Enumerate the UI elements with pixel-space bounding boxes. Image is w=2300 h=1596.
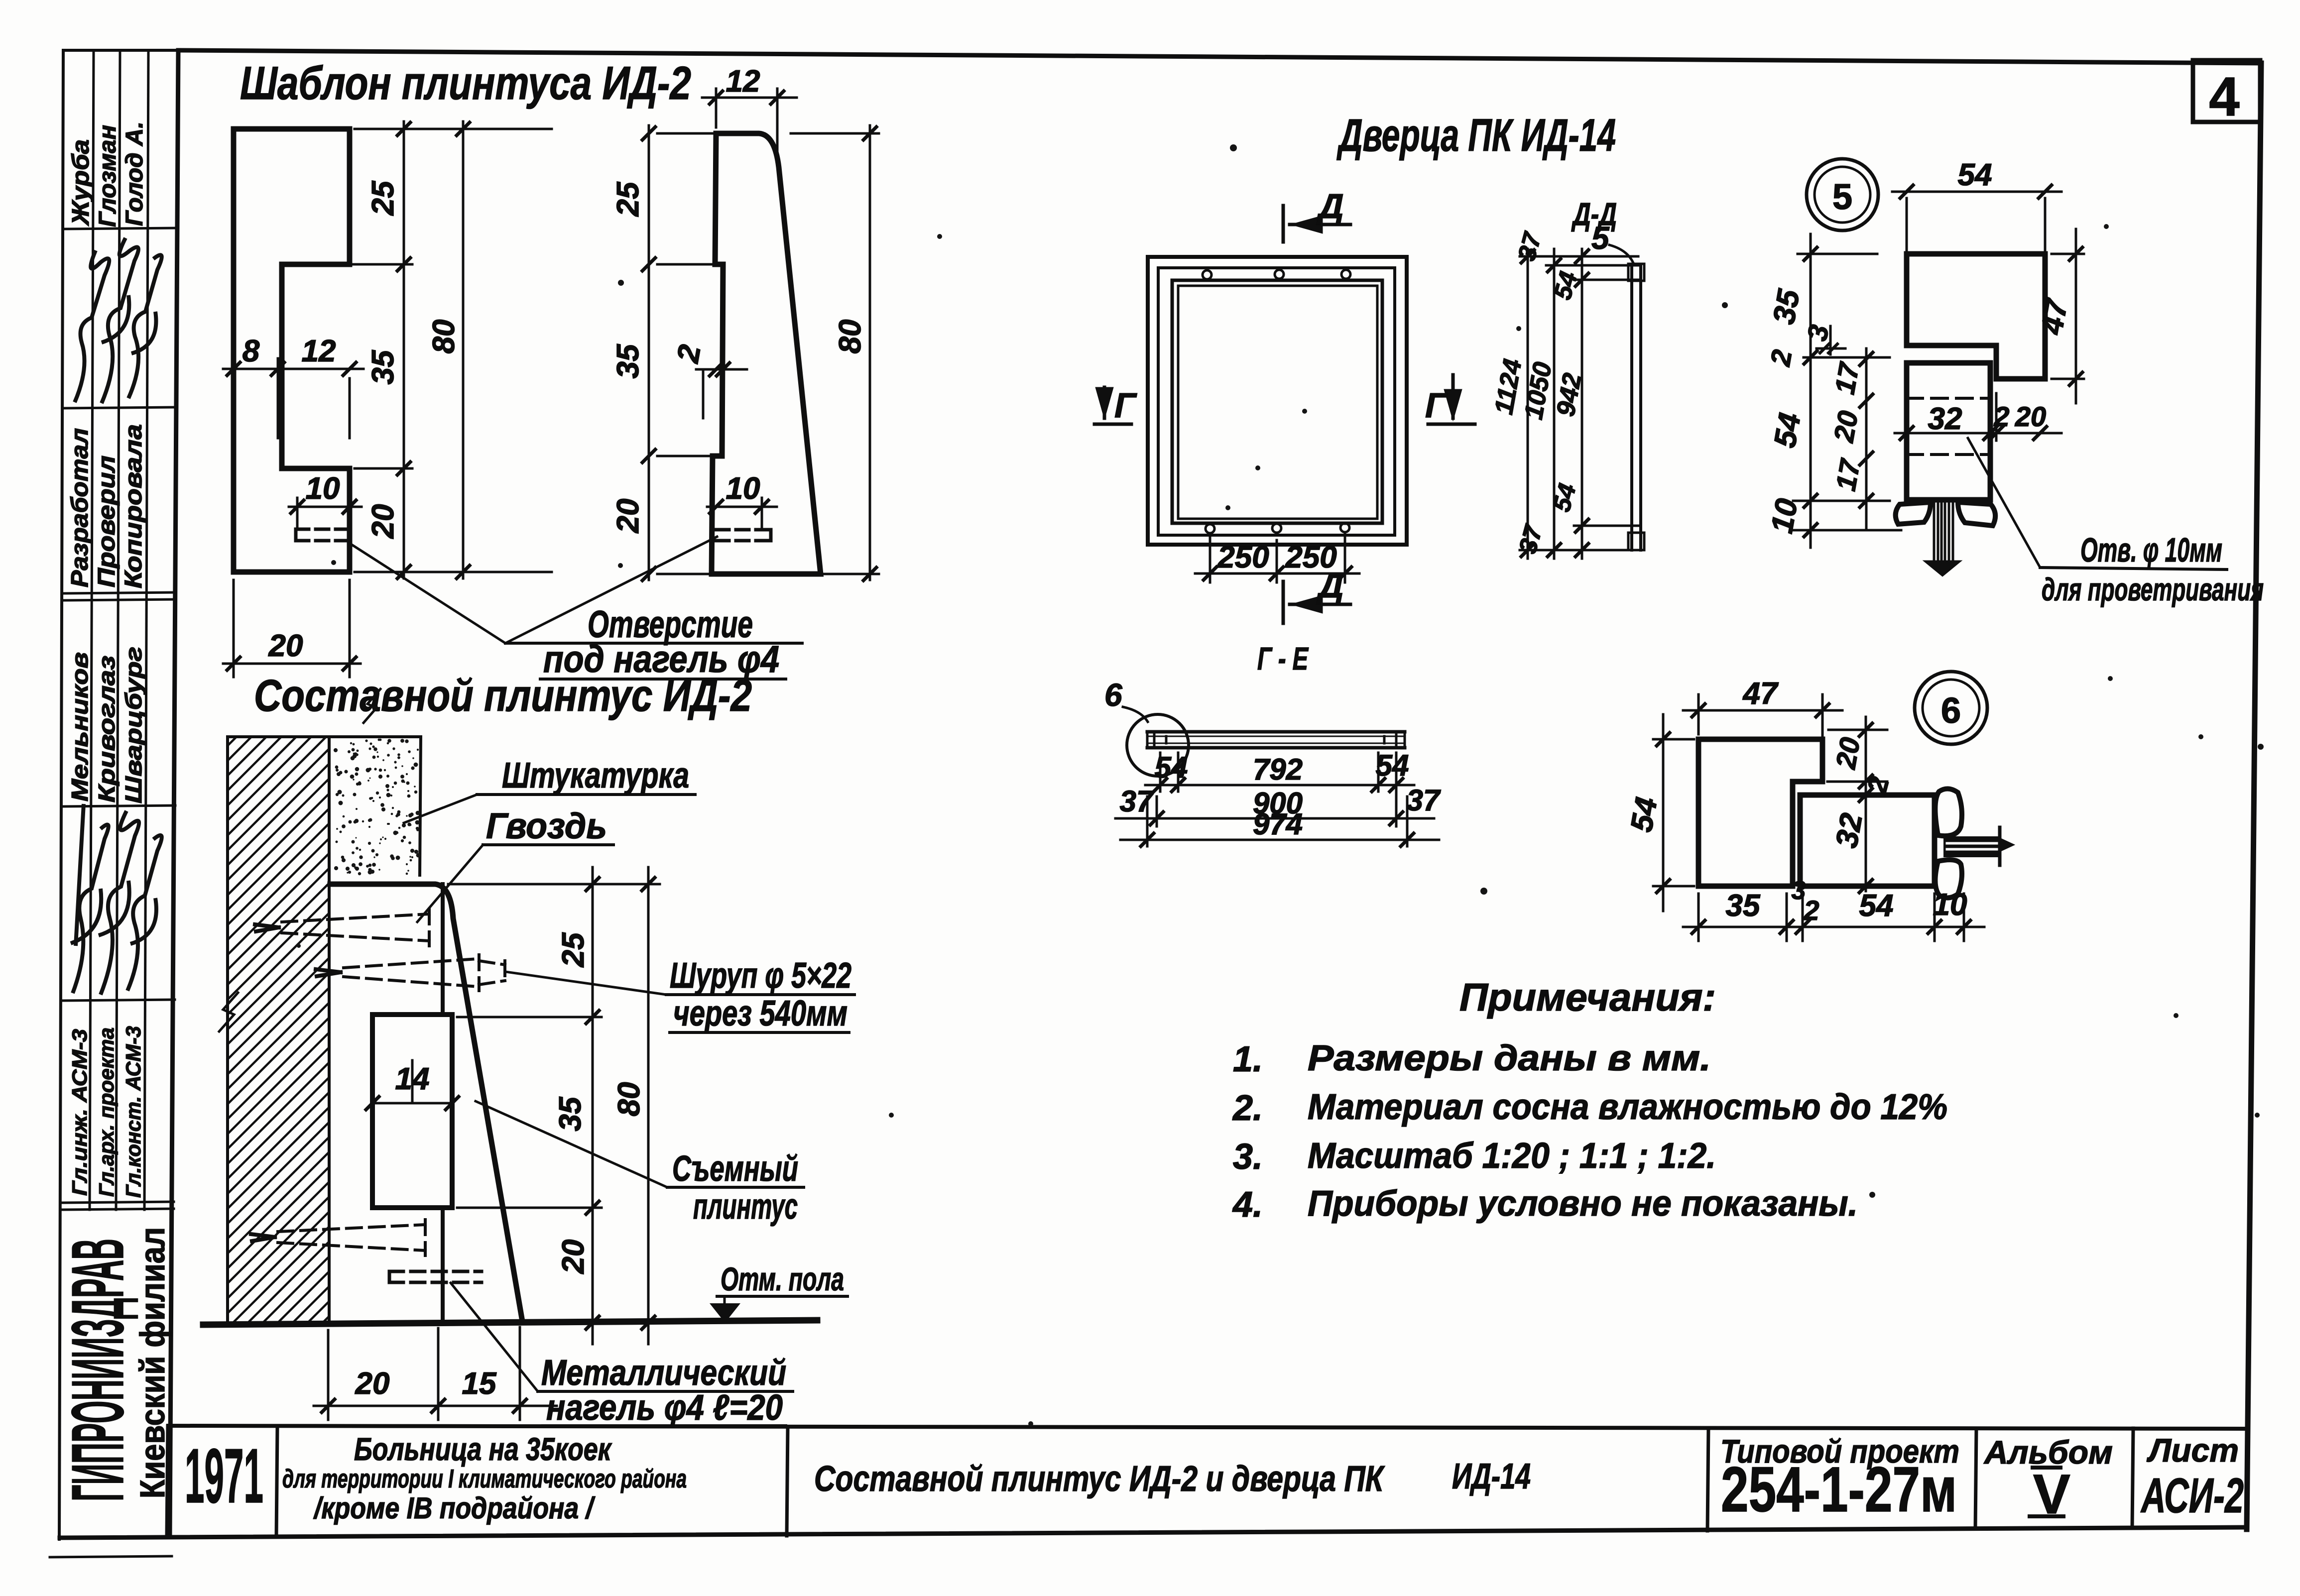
nail 2 dashed	[278, 1220, 425, 1255]
svg-text:5: 5	[1591, 220, 1610, 256]
G-E dim row 37-900-37	[1115, 797, 1434, 826]
dim 10 profile2	[707, 498, 777, 527]
detail6 dim 54 left	[1653, 714, 1694, 911]
D-D dim chain 1050	[1546, 249, 1638, 559]
dim chain 25-35-20 profile2	[649, 125, 712, 580]
skirting mortise rectangle	[372, 1015, 452, 1208]
svg-text:15: 15	[462, 1367, 497, 1401]
svg-text:Голод А.: Голод А.	[121, 121, 148, 226]
detail5 small dim 3	[1816, 326, 1845, 354]
dim chain 80 section	[647, 867, 650, 1344]
D-D strip end blocks	[1628, 264, 1644, 281]
door frame line 4	[1178, 286, 1377, 519]
svg-text:32: 32	[1829, 810, 1869, 850]
profile 2 outline	[712, 133, 821, 574]
svg-text:Больница на 35коек: Больница на 35коек	[354, 1431, 612, 1467]
svg-text:54: 54	[1624, 795, 1664, 834]
svg-text:Отм. пола: Отм. пола	[721, 1260, 844, 1297]
detail6 right piece outline	[1800, 795, 1935, 886]
frame left border (stamp right edge)	[170, 50, 178, 1536]
detail5 left chain A	[1792, 234, 1901, 548]
door frame line 3	[1172, 280, 1382, 523]
dim 10 line profile1	[289, 498, 362, 527]
svg-text:8: 8	[242, 334, 260, 368]
svg-text:Материал сосна влажностью д: Материал сосна влажностью до 12%	[1308, 1087, 1947, 1127]
label leader: metal dowel	[451, 1283, 538, 1391]
svg-text:25: 25	[556, 932, 591, 967]
wall block outline	[226, 737, 229, 1323]
svg-text:Кривоглаз: Кривоглаз	[94, 656, 120, 802]
floor line	[203, 1320, 817, 1325]
svg-text:Г: Г	[1425, 386, 1448, 425]
svg-text:20: 20	[2015, 401, 2046, 432]
svg-text:254-1-27м: 254-1-27м	[1721, 1454, 1957, 1525]
label leader: Shtukaturka	[404, 795, 477, 823]
stamp row line 4	[61, 805, 175, 806]
section mark G right	[1428, 423, 1475, 426]
svg-text:Г: Г	[1114, 386, 1137, 425]
door screw holes top	[1203, 270, 1211, 279]
svg-text:32: 32	[1928, 402, 1962, 436]
title block top line	[168, 1426, 2247, 1429]
svg-text:Разработал: Разработал	[67, 428, 93, 587]
svg-text:20: 20	[366, 504, 400, 539]
stamp signature 5	[99, 811, 139, 995]
detail6 wing bottom	[1935, 860, 1962, 898]
detail5 dim 47 right	[2052, 229, 2084, 403]
profile 2 dowel hole dashed	[716, 530, 771, 541]
title block divider before project no	[1707, 1428, 1708, 1531]
svg-text:Проверил: Проверил	[94, 456, 120, 587]
detail6 dim 20-2-32 right chain	[1827, 717, 1887, 891]
svg-text:/кроме IВ подрайона /: /кроме IВ подрайона /	[313, 1491, 595, 1525]
dim chain 25-35-20 section	[448, 867, 660, 1344]
stamp signature 4	[71, 804, 109, 993]
svg-text:20: 20	[355, 1367, 390, 1401]
svg-text:Копировала: Копировала	[121, 424, 147, 588]
svg-text:для территории I климатическог: для территории I климатического района	[282, 1465, 687, 1493]
metal dowel dashed	[389, 1271, 482, 1282]
svg-text:Гл.арх. проекта: Гл.арх. проекта	[95, 1027, 118, 1197]
detail5 lower piece dashed holes	[1907, 398, 1990, 455]
stamp row line 5	[61, 1000, 175, 1001]
skirting profile outline	[330, 884, 522, 1321]
svg-text:Дверца ПК ИД-14: Дверца ПК ИД-14	[1336, 110, 1616, 161]
svg-text:35: 35	[553, 1096, 588, 1131]
stamp signature 2	[102, 238, 138, 403]
title block divider after hospital	[787, 1427, 788, 1536]
svg-text:Мельников: Мельников	[67, 652, 93, 801]
detail5 lower piece outline	[1907, 363, 1990, 500]
stamp signature 6	[127, 835, 162, 991]
title block bottom line	[60, 1527, 2247, 1538]
svg-text:Масштаб 1:20 ; 1:1 ; 1:2.: Масштаб 1:20 ; 1:1 ; 1:2.	[1308, 1136, 1716, 1176]
svg-text:54: 54	[1958, 158, 1992, 192]
svg-text:АСИ-2: АСИ-2	[2140, 1468, 2244, 1523]
svg-text:37: 37	[1407, 784, 1441, 817]
svg-text:12: 12	[302, 334, 336, 368]
svg-text:10: 10	[1933, 888, 1967, 922]
detail5 inner chain B	[1865, 348, 1868, 530]
svg-text:Гвоздь: Гвоздь	[486, 806, 607, 846]
stamp column inner line 3	[144, 50, 148, 1210]
svg-text:2: 2	[1993, 401, 2009, 432]
svg-text:25: 25	[611, 181, 645, 217]
svg-text:54: 54	[1768, 410, 1808, 450]
dim 8-12 line	[223, 358, 363, 438]
svg-text:Отв. φ 10мм: Отв. φ 10мм	[2080, 531, 2222, 569]
skirting joint vertical top	[441, 884, 445, 1015]
svg-text:1.: 1.	[1233, 1039, 1263, 1079]
G-E dim row 54-792-54	[1145, 753, 1414, 826]
svg-text:80: 80	[427, 320, 461, 354]
stamp row line names1 top	[63, 49, 178, 52]
svg-text:35: 35	[1767, 286, 1807, 327]
plaster right edge	[420, 737, 421, 875]
svg-text:80: 80	[833, 320, 867, 354]
svg-text:плинтус: плинтус	[693, 1187, 798, 1227]
svg-text:25: 25	[366, 180, 400, 216]
profile 1 dowel hole dashed	[296, 529, 355, 541]
svg-text:54: 54	[1376, 749, 1409, 782]
svg-text:4.: 4.	[1232, 1185, 1263, 1225]
svg-text:12: 12	[726, 64, 760, 99]
stamp signature 1	[75, 250, 109, 402]
svg-text:Составной плинтус ИД-2: Составной плинтус ИД-2	[254, 671, 752, 721]
bottom dim 20-15 extension lines	[314, 1327, 557, 1420]
nail 1 dashed	[282, 909, 429, 946]
wall hatching	[228, 737, 329, 1323]
label leader: Shurup	[505, 972, 666, 995]
dim 2 notch profile2	[696, 369, 747, 418]
svg-text:Гл.инж. АСМ-3: Гл.инж. АСМ-3	[68, 1029, 91, 1196]
svg-text:для проветривания: для проветривания	[2042, 571, 2264, 607]
svg-text:Журба: Журба	[68, 139, 94, 227]
dim chain 80 profile1	[463, 121, 552, 578]
detail5 shaft arrow	[1923, 561, 1962, 576]
detail5 handle shaft hatched	[1934, 502, 1953, 561]
svg-text:Д: Д	[1316, 187, 1344, 226]
dim chain 25-35-20 profile1	[287, 121, 472, 578]
svg-text:20: 20	[268, 629, 303, 663]
door screw holes bottom	[1206, 524, 1214, 533]
svg-text:ГИПРОНИИЗДРАВ: ГИПРОНИИЗДРАВ	[57, 1239, 139, 1501]
detail6 left piece outline	[1698, 739, 1822, 886]
svg-text:47: 47	[1742, 677, 1779, 711]
detail6 shaft end bar	[1998, 827, 2002, 865]
detail5 dim 32-2-20 line	[1895, 393, 2061, 441]
svg-text:6: 6	[1941, 691, 1961, 731]
svg-text:Шварцбург: Шварцбург	[121, 647, 146, 803]
svg-text:80: 80	[612, 1082, 646, 1117]
note underline 2	[540, 678, 786, 681]
detail6 shaft arrow	[2001, 838, 2015, 851]
stamp column outer left line	[59, 50, 63, 1539]
svg-text:250: 250	[1217, 540, 1269, 574]
dim 20 bottom profile1	[223, 580, 361, 677]
stamp bottom double line	[60, 1202, 174, 1203]
detail circle on G-E	[1127, 714, 1189, 776]
svg-text:20: 20	[1829, 735, 1866, 771]
scan specks	[297, 144, 2264, 1426]
door outer frame	[1148, 257, 1407, 545]
frame right border	[2247, 63, 2261, 1529]
svg-text:Глозман: Глозман	[95, 125, 121, 227]
profile 1 outline	[234, 129, 350, 572]
stamp row line 1	[63, 228, 177, 229]
svg-text:54: 54	[1155, 751, 1188, 784]
svg-text:Составной плинтус ИД-2 и дверц: Составной плинтус ИД-2 и дверца ПК	[814, 1459, 1385, 1499]
dim ticks 8-12	[227, 362, 356, 375]
detail6 bottom chain	[1683, 894, 1984, 941]
leader to vent hole note	[1968, 438, 2040, 568]
svg-text:Шаблон плинтуса ИД-2: Шаблон плинтуса ИД-2	[240, 57, 691, 109]
svg-text:20: 20	[556, 1240, 591, 1274]
G-E strip right end cap	[1404, 732, 1406, 748]
svg-text:Г - Е: Г - Е	[1257, 641, 1309, 677]
title block divider before album	[1975, 1428, 1976, 1528]
skirting joint vertical bottom	[441, 1208, 445, 1322]
G-E strip left end cap	[1146, 732, 1149, 748]
svg-text:1971: 1971	[185, 1433, 263, 1519]
svg-text:47: 47	[2035, 296, 2075, 338]
dim chain 80 profile2	[791, 125, 879, 580]
detail6 wing top	[1935, 789, 1962, 836]
detail6 dim 47 top	[1683, 694, 1842, 777]
svg-text:Приборы условно не показаны: Приборы условно не показаны.	[1308, 1184, 1858, 1224]
svg-text:2: 2	[1803, 895, 1819, 926]
door dim 250-250	[1195, 534, 1359, 582]
stamp column inner line 1	[90, 50, 94, 1210]
svg-text:35: 35	[611, 343, 645, 378]
svg-text:6: 6	[1104, 677, 1122, 713]
svg-text:нагель φ4 ℓ=20: нагель φ4 ℓ=20	[546, 1388, 783, 1428]
leader from profile2 hole to note text	[505, 537, 717, 643]
stamp row double line 3	[62, 592, 176, 593]
title block divider before list	[2132, 1428, 2133, 1527]
svg-text:54: 54	[1859, 889, 1894, 923]
stamp signature 3	[128, 255, 162, 398]
detail6 shaft solid	[1943, 836, 1999, 857]
svg-text:Гл.конст. АСМ-3: Гл.конст. АСМ-3	[121, 1026, 145, 1198]
note underline 1	[505, 642, 802, 645]
svg-text:10: 10	[726, 471, 760, 506]
title block divider year box left	[167, 1426, 168, 1537]
svg-text:2.: 2.	[1232, 1088, 1263, 1128]
section mark D bottom	[1282, 581, 1285, 623]
detail5 handle wing right	[1958, 502, 1995, 526]
label leader: Syomny plintus	[476, 1101, 667, 1187]
svg-text:792: 792	[1253, 753, 1303, 786]
section mark G left	[1094, 423, 1131, 426]
svg-text:250: 250	[1285, 540, 1336, 574]
svg-text:10: 10	[306, 471, 340, 506]
svg-text:Размеры даны в мм.: Размеры даны в мм.	[1308, 1038, 1711, 1078]
title block divider year box right	[276, 1427, 277, 1537]
svg-text:10: 10	[1765, 496, 1805, 536]
screw dashed	[344, 955, 505, 991]
svg-text:Киевский филиал: Киевский филиал	[133, 1227, 172, 1498]
svg-text:37: 37	[1120, 785, 1154, 818]
svg-text:Съемный: Съемный	[672, 1149, 798, 1189]
svg-text:через 540мм: через 540мм	[673, 994, 847, 1033]
sheet number box	[2193, 60, 2260, 122]
svg-text:4: 4	[2209, 66, 2239, 127]
detail5 handle wing left	[1896, 502, 1931, 524]
wall break mark	[219, 993, 238, 1031]
door frame line 2	[1158, 268, 1395, 535]
svg-text:35: 35	[366, 349, 400, 384]
svg-text:Лист: Лист	[2147, 1432, 2239, 1469]
svg-text:Примечания:: Примечания:	[1459, 975, 1716, 1019]
leader from profile1 hole to note text	[349, 543, 505, 643]
detail5 dim 54 top	[1892, 192, 2061, 251]
svg-text:Шуруп φ 5×22: Шуруп φ 5×22	[670, 956, 851, 996]
detail 6 bubble	[1915, 672, 1987, 744]
label leader: Otm pola	[717, 1295, 847, 1298]
frame top border	[179, 50, 2261, 63]
D-D dim chain 942-54-37	[1574, 249, 1638, 559]
svg-text:Металлический: Металлический	[541, 1353, 786, 1393]
svg-text:Штукатурка: Штукатурка	[502, 756, 689, 796]
D-D dim chain 1124	[1520, 249, 1638, 559]
dim 12 top profile2	[702, 89, 797, 159]
svg-text:5: 5	[1832, 177, 1852, 217]
sheet bottom edge line	[50, 1556, 172, 1557]
floor level mark triangle	[710, 1303, 740, 1323]
plaster stipple	[334, 739, 420, 876]
G-E dim row 974	[1120, 797, 1439, 846]
svg-text:20: 20	[1827, 408, 1864, 445]
stamp column inner line 2	[116, 50, 120, 1210]
stamp row line 2	[62, 407, 177, 408]
svg-text:35: 35	[1726, 889, 1761, 923]
svg-text:974: 974	[1253, 807, 1303, 841]
detail5 upper piece outline	[1907, 254, 2045, 379]
section mark D top	[1282, 206, 1285, 242]
svg-text:ИД-14: ИД-14	[1452, 1457, 1531, 1496]
svg-text:3.: 3.	[1233, 1137, 1263, 1177]
detail 5 bubble	[1807, 159, 1878, 230]
G-E strip lines	[1147, 730, 1405, 734]
label leader: Gvozd	[417, 845, 483, 922]
D-D strip outline	[1630, 265, 1633, 550]
svg-text:20: 20	[611, 499, 645, 534]
